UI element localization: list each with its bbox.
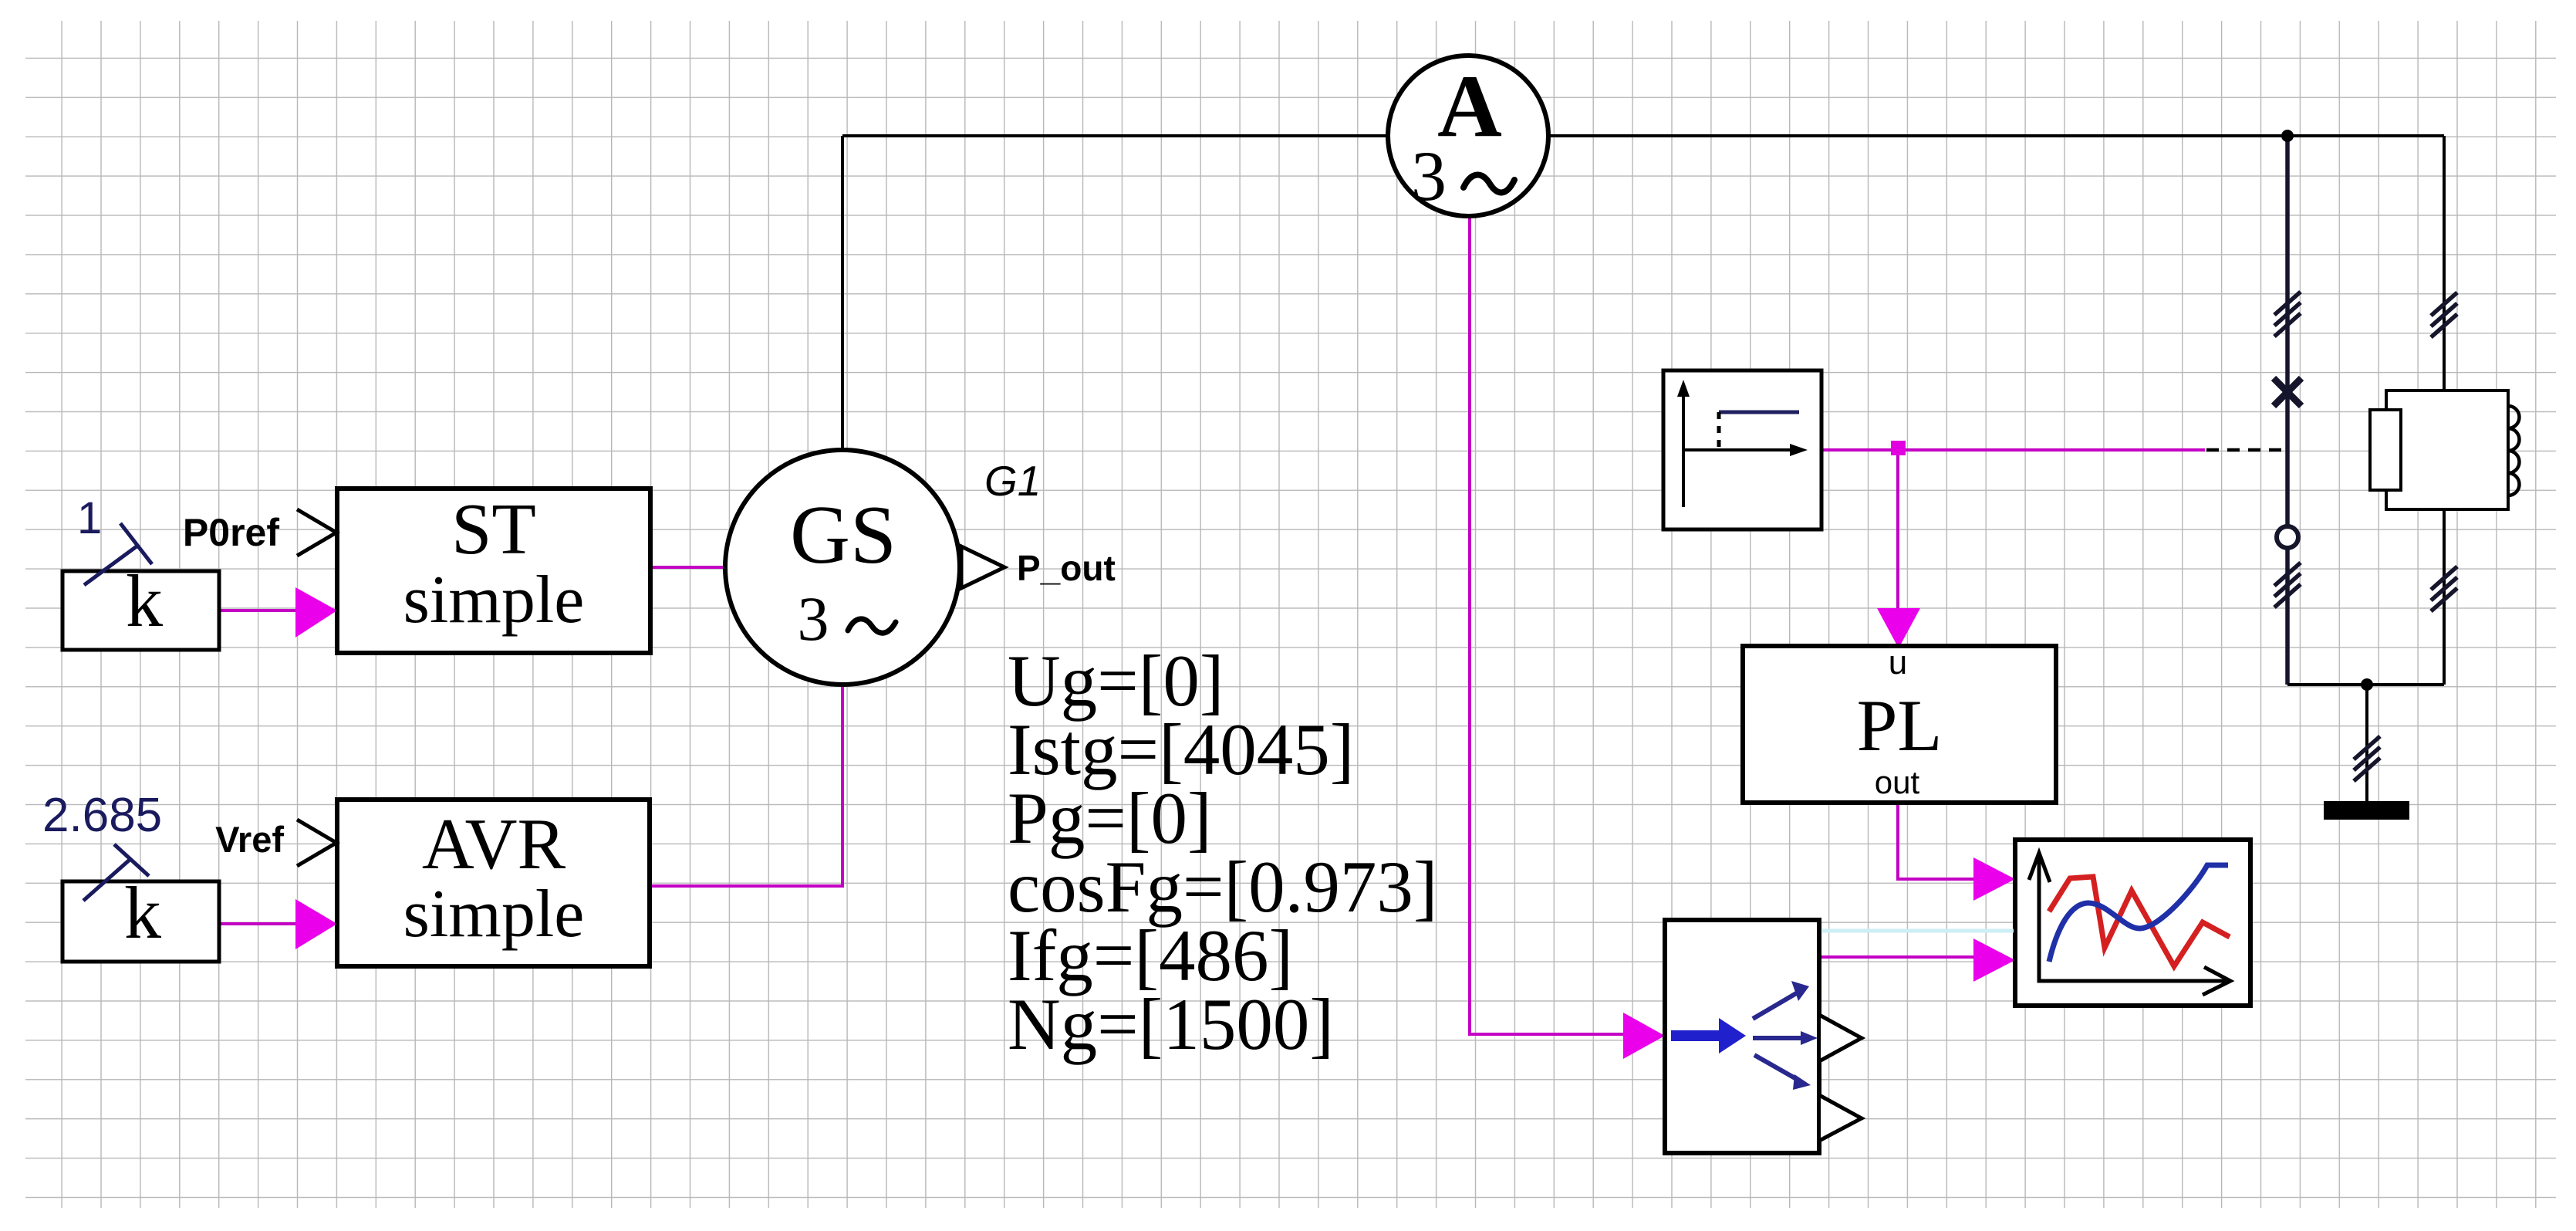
svg-text:2.685: 2.685 <box>42 789 162 842</box>
svg-text:P0ref: P0ref <box>183 511 279 554</box>
svg-text:3: 3 <box>798 583 829 654</box>
svg-text:Vref: Vref <box>215 819 284 860</box>
svg-text:1: 1 <box>77 493 102 543</box>
svg-text:simple: simple <box>403 563 585 637</box>
svg-text:out: out <box>1875 764 1920 800</box>
svg-text:3: 3 <box>1411 137 1447 215</box>
svg-text:AVR: AVR <box>422 804 566 884</box>
svg-text:ST: ST <box>451 489 536 570</box>
svg-text:G1: G1 <box>984 457 1041 505</box>
svg-text:GS: GS <box>790 489 896 581</box>
svg-text:Ng=[1500]: Ng=[1500] <box>1008 983 1334 1065</box>
svg-text:k: k <box>126 560 163 642</box>
svg-text:P_out: P_out <box>1017 548 1116 588</box>
svg-text:u: u <box>1889 644 1907 681</box>
svg-text:A: A <box>1437 57 1502 156</box>
svg-text:PL: PL <box>1857 685 1943 766</box>
svg-text:simple: simple <box>403 877 585 952</box>
svg-text:k: k <box>124 871 161 954</box>
